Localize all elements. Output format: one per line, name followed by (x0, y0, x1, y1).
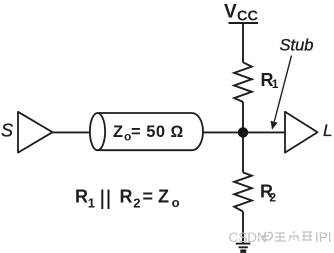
svg-text:1: 1 (272, 77, 279, 91)
wire R1 to node (242, 102, 244, 137)
svg-text:o: o (172, 195, 180, 210)
wire node to buffer L (stub) (243, 131, 285, 133)
svg-text:R: R (120, 187, 133, 207)
svg-text:2: 2 (133, 196, 140, 211)
label R1 (261, 70, 279, 91)
buffer L (285, 112, 318, 153)
node junction dot (238, 127, 248, 137)
label R2 (260, 182, 276, 205)
svg-text:Stub: Stub (280, 37, 314, 55)
svg-text:R: R (75, 187, 88, 207)
wire R2 to ground (242, 212, 244, 244)
svg-text:S: S (1, 120, 13, 140)
wire S to transmission line (53, 131, 92, 133)
svg-text:1: 1 (88, 196, 95, 211)
power rail VCC bar (229, 22, 259, 24)
formula parallel bars (102, 190, 108, 210)
svg-text:= Z: = Z (143, 187, 170, 207)
stub pointer arrow (271, 56, 292, 130)
svg-text:L: L (323, 121, 332, 140)
value label Z0 = 50 Ohm (113, 123, 184, 144)
svg-text:IPI: IPI (315, 230, 332, 245)
buffer S (18, 112, 53, 153)
power rail VCC label (224, 2, 258, 25)
transmission line body Z0 (98, 113, 203, 150)
ground (236, 244, 251, 252)
wire node to R2 (242, 132, 244, 172)
resistor R1 (234, 62, 252, 102)
svg-text:V: V (224, 2, 237, 23)
svg-text:Z: Z (113, 123, 123, 141)
svg-text:= 50 Ω: = 50 Ω (131, 123, 184, 141)
watermark CSDN (229, 230, 332, 245)
formula R1 parallel R2 = Z0 (75, 187, 180, 211)
transmission line left face ellipse (90, 113, 105, 150)
wire VCC to R1 (242, 23, 244, 63)
svg-text:CSDN: CSDN (229, 230, 267, 245)
resistor R2 (234, 172, 252, 211)
wire transmission line to node (203, 131, 243, 133)
svg-text:2: 2 (269, 191, 276, 205)
